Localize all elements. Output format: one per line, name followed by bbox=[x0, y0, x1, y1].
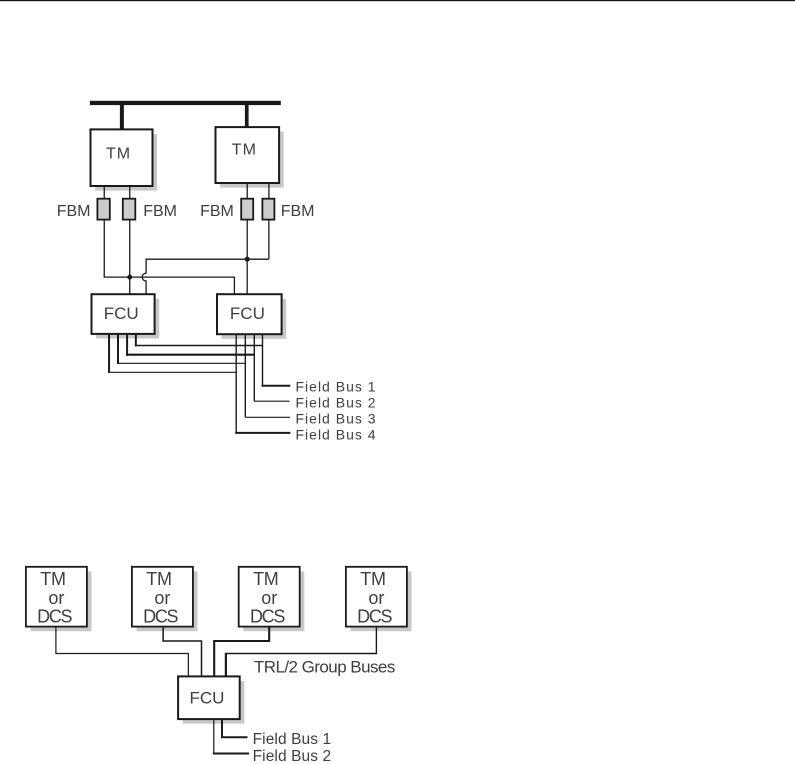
svg-text:DCS: DCS bbox=[143, 607, 178, 627]
svg-text:Field Bus 1: Field Bus 1 bbox=[253, 731, 332, 748]
node: redundant TM bus (thick bar) bbox=[90, 101, 281, 105]
svg-text:TRL/2 Group Buses: TRL/2 Group Buses bbox=[254, 657, 395, 676]
wire: FCU1 out 4 vertical bbox=[135, 334, 137, 347]
svg-text:FBM: FBM bbox=[143, 203, 177, 220]
wire: TM/DCS2 to FCU bbox=[163, 627, 201, 677]
wire: field bus 1 stub lower bbox=[221, 736, 248, 738]
wire: TM/DCS4 drop into FCU (thick) bbox=[225, 653, 227, 677]
wire: field bus 2 horizontal (thick) bbox=[126, 354, 254, 356]
svg-text:or: or bbox=[48, 588, 64, 608]
svg-text:FCU: FCU bbox=[104, 304, 139, 323]
connector FBM1 bbox=[97, 199, 109, 220]
svg-text:TM: TM bbox=[253, 569, 278, 589]
svg-text:TM: TM bbox=[232, 142, 257, 159]
box TM/DCS 3 shadow bbox=[243, 571, 304, 631]
box FCU2 shadow bbox=[222, 299, 287, 339]
svg-text:or: or bbox=[154, 588, 170, 608]
box TM/DCS 2 bbox=[132, 567, 193, 627]
wire: FCU to field bus 1 (thick) bbox=[221, 719, 223, 737]
box TM/DCS 1 shadow bbox=[31, 571, 92, 631]
svg-text:TM: TM bbox=[146, 569, 171, 589]
connector FBM3 bbox=[241, 199, 253, 220]
wire: FCU2 drop to field bus 1 bbox=[262, 334, 264, 386]
box TM/DCS 1 bbox=[26, 567, 87, 627]
wire: field bus 2 stub lower bbox=[213, 753, 249, 755]
box FCU lower bbox=[178, 676, 240, 719]
svg-text:DCS: DCS bbox=[357, 607, 392, 627]
wire: TM/DCS3 to FCU (thick) bbox=[214, 627, 269, 677]
wire: field bus 1 stub (thick) bbox=[262, 385, 291, 387]
box TM/DCS 2 shadow bbox=[137, 571, 198, 631]
box TM/DCS 3 bbox=[239, 567, 300, 627]
svg-text:Field Bus 4: Field Bus 4 bbox=[296, 427, 377, 443]
wire: FCU1 out 3 vertical bbox=[126, 334, 128, 356]
wire: FCU to field bus 2 bbox=[213, 719, 215, 753]
wire: TM2 to FBM4 to bus A bbox=[268, 183, 270, 259]
svg-text:Field Bus 1: Field Bus 1 bbox=[296, 379, 377, 395]
wire: TM/DCS4 to FCU bbox=[226, 627, 377, 654]
wire: FCU1 out 1 vertical bbox=[108, 334, 110, 373]
connector FBM2 bbox=[123, 199, 136, 220]
connector FBM4 bbox=[262, 199, 274, 220]
box TM1 bbox=[91, 129, 153, 186]
wire: TM1 to FBM2 to FCU1 bbox=[129, 186, 131, 294]
svg-text:FBM: FBM bbox=[281, 203, 315, 220]
wire: TM/DCS1 to FCU bbox=[56, 627, 188, 677]
junction dot on bus A bbox=[245, 257, 250, 262]
svg-text:TM: TM bbox=[360, 569, 385, 589]
svg-text:Field Bus 3: Field Bus 3 bbox=[296, 411, 377, 427]
svg-text:DCS: DCS bbox=[37, 607, 72, 627]
box FCU lower shadow bbox=[183, 681, 245, 724]
svg-text:Field Bus 2: Field Bus 2 bbox=[253, 748, 332, 764]
wire: field bus 3 horizontal bbox=[117, 362, 245, 364]
wire: field bus 4 stub (thick) bbox=[235, 432, 290, 434]
junction dot on bus B bbox=[127, 275, 132, 280]
wire: field bus 2 stub bbox=[254, 400, 289, 402]
box TM2 bbox=[216, 127, 280, 183]
wire: FCU2 drop to field bus 4 bbox=[235, 334, 237, 433]
svg-text:TM: TM bbox=[106, 146, 131, 163]
svg-text:DCS: DCS bbox=[250, 607, 285, 627]
box FCU1 shadow bbox=[96, 299, 159, 339]
wire: drop from bus to TM1 bbox=[120, 104, 124, 130]
svg-text:FBM: FBM bbox=[200, 203, 234, 220]
wire: drop from bus to TM2 bbox=[245, 104, 249, 127]
box FCU2 bbox=[217, 294, 282, 334]
box FCU1 bbox=[92, 294, 155, 334]
wire: field bus 1 horizontal bbox=[135, 345, 263, 347]
svg-text:FCU: FCU bbox=[230, 304, 265, 323]
wire: TM2 to FBM3 to FCU2 bbox=[246, 183, 248, 294]
svg-text:or: or bbox=[368, 588, 384, 608]
wire: bus A horizontal with hop over bus B down to FCU1 bbox=[142, 259, 269, 294]
svg-text:Field Bus 2: Field Bus 2 bbox=[296, 395, 377, 411]
wire: FCU2 drop to field bus 2 bbox=[253, 334, 255, 401]
box TM/DCS 4 shadow bbox=[351, 571, 412, 631]
wire: FCU1 out 2 vertical bbox=[117, 334, 119, 364]
svg-text:TM: TM bbox=[40, 569, 65, 589]
page top edge bbox=[0, 0, 795, 1]
svg-text:or: or bbox=[261, 588, 277, 608]
wire: TM1 to FBM1 to bus B bbox=[104, 186, 234, 294]
svg-text:FCU: FCU bbox=[190, 689, 225, 708]
svg-text:FBM: FBM bbox=[57, 203, 91, 220]
wire: field bus 4 horizontal bbox=[108, 371, 236, 373]
box TM1 shadow bbox=[95, 134, 157, 191]
box TM/DCS 4 bbox=[346, 567, 407, 627]
wire: FCU2 drop to field bus 3 bbox=[244, 334, 246, 417]
box TM2 shadow bbox=[220, 132, 284, 188]
wire: field bus 3 stub bbox=[245, 416, 290, 418]
